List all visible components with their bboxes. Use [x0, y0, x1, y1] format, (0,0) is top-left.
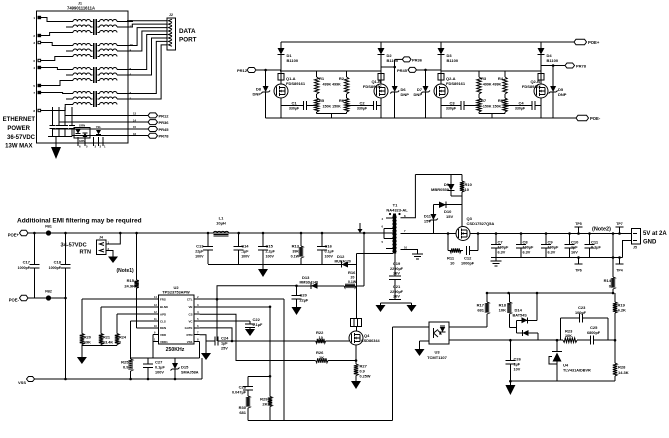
svg-text:6: 6 [381, 225, 383, 229]
svg-text:TCMT1107: TCMT1107 [427, 355, 448, 360]
svg-text:B1100: B1100 [387, 58, 399, 63]
svg-text:DNP: DNP [414, 92, 423, 97]
svg-text:10µH: 10µH [216, 221, 226, 226]
svg-text:C8: C8 [523, 240, 529, 245]
svg-text:14: 14 [133, 118, 137, 122]
svg-text:B1100: B1100 [287, 58, 299, 63]
svg-text:R20: R20 [84, 336, 91, 340]
svg-text:TPS23753APW: TPS23753APW [162, 290, 190, 295]
svg-text:1000pF: 1000pF [49, 266, 62, 270]
svg-text:1000pF: 1000pF [461, 262, 475, 266]
svg-text:CSD17527Q5A: CSD17527Q5A [467, 221, 495, 226]
svg-text:13: 13 [133, 112, 137, 116]
svg-text:16: 16 [133, 132, 137, 136]
svg-text:10K: 10K [565, 334, 572, 338]
svg-text:CSD86344: CSD86344 [361, 339, 380, 343]
svg-text:C21: C21 [393, 284, 401, 289]
svg-text:POWER: POWER [7, 126, 30, 132]
svg-text:3: 3 [33, 41, 35, 45]
svg-text:C27: C27 [155, 360, 163, 365]
svg-text:10V: 10V [514, 368, 521, 372]
svg-text:TP7: TP7 [616, 222, 622, 226]
svg-text:13W MAX: 13W MAX [5, 144, 32, 150]
svg-text:C19: C19 [393, 261, 401, 266]
svg-text:J5: J5 [633, 246, 637, 250]
svg-text:R5: R5 [319, 98, 325, 103]
svg-text:20: 20 [351, 276, 355, 280]
svg-text:6: 6 [79, 145, 81, 149]
svg-text:D15: D15 [181, 365, 189, 370]
svg-text:DATA: DATA [179, 28, 196, 35]
svg-text:CS: CS [188, 312, 192, 316]
svg-text:FDS89161: FDS89161 [446, 81, 466, 86]
svg-text:100V: 100V [155, 371, 164, 375]
svg-text:R7: R7 [481, 98, 487, 103]
svg-text:499K 499K: 499K 499K [483, 83, 502, 87]
svg-text:R4: R4 [498, 76, 504, 81]
svg-text:DNP: DNP [253, 92, 262, 97]
svg-text:FDS89161: FDS89161 [522, 84, 542, 89]
svg-text:R24: R24 [119, 336, 127, 340]
svg-text:R3: R3 [481, 76, 487, 81]
svg-text:36-57VDC: 36-57VDC [7, 135, 36, 141]
svg-text:POE+: POE+ [8, 232, 20, 237]
svg-text:CLS: CLS [160, 319, 166, 323]
svg-text:C3: C3 [449, 101, 455, 106]
svg-text:10: 10 [404, 246, 408, 250]
svg-text:VSS: VSS [187, 340, 193, 344]
svg-text:(Note1): (Note1) [117, 268, 135, 274]
svg-text:C2: C2 [359, 101, 365, 106]
svg-text:250KHz: 250KHz [166, 347, 185, 353]
svg-text:U4: U4 [563, 363, 569, 368]
svg-text:2K: 2K [262, 402, 267, 407]
svg-text:4: 4 [33, 66, 35, 70]
svg-text:PR12: PR12 [237, 68, 248, 73]
svg-text:C9: C9 [548, 240, 554, 245]
svg-text:4.2K: 4.2K [618, 308, 627, 313]
svg-text:D13: D13 [302, 275, 310, 280]
svg-text:14.3K: 14.3K [618, 370, 629, 375]
svg-text:1µF: 1µF [571, 246, 578, 250]
svg-text:POE+: POE+ [588, 40, 600, 45]
svg-text:100pF: 100pF [575, 311, 587, 315]
svg-text:J2: J2 [169, 13, 173, 17]
svg-text:FB1: FB1 [45, 225, 52, 229]
svg-text:0.1µF: 0.1µF [325, 250, 335, 254]
svg-text:0.25W: 0.25W [360, 375, 371, 379]
svg-text:26V: 26V [393, 295, 400, 299]
svg-text:R14: R14 [604, 278, 612, 283]
svg-text:C7: C7 [498, 240, 504, 245]
svg-text:4: 4 [381, 217, 383, 221]
svg-text:0.1W: 0.1W [291, 255, 300, 259]
svg-text:TP4: TP4 [616, 269, 622, 273]
svg-text:5: 5 [381, 240, 383, 244]
svg-text:B1100: B1100 [547, 58, 559, 63]
svg-text:C16: C16 [325, 244, 333, 249]
svg-text:Q4: Q4 [364, 333, 370, 338]
svg-text:PR36: PR36 [159, 120, 170, 125]
svg-text:DEN: DEN [160, 326, 166, 330]
svg-text:RTN: RTN [80, 250, 92, 256]
svg-text:VDD1: VDD1 [160, 340, 168, 344]
svg-text:PR36: PR36 [412, 57, 423, 62]
svg-text:330µF: 330µF [357, 107, 368, 111]
svg-text:100V: 100V [195, 255, 204, 259]
svg-text:C20: C20 [300, 293, 308, 298]
svg-text:R8: R8 [498, 98, 504, 103]
svg-text:2.2µF: 2.2µF [266, 250, 276, 254]
svg-text:2200µF: 2200µF [390, 290, 404, 294]
svg-text:GATE: GATE [185, 326, 193, 330]
svg-text:C22: C22 [253, 317, 261, 322]
svg-text:10: 10 [450, 261, 455, 266]
svg-text:R6: R6 [339, 98, 345, 103]
svg-text:6.3V: 6.3V [548, 251, 556, 255]
svg-text:6800pF: 6800pF [587, 331, 601, 335]
svg-text:26V: 26V [393, 272, 400, 276]
svg-text:MURA120: MURA120 [335, 260, 351, 264]
svg-text:C14: C14 [241, 244, 249, 249]
svg-text:RTN: RTN [187, 333, 193, 337]
svg-text:C11: C11 [591, 240, 599, 245]
svg-text:TP5: TP5 [575, 222, 581, 226]
svg-text:100V: 100V [325, 255, 334, 259]
svg-text:PR45: PR45 [159, 127, 170, 132]
svg-text:SMAJ58A: SMAJ58A [181, 371, 199, 375]
svg-text:FDS89161: FDS89161 [286, 81, 306, 86]
svg-text:0.1µF: 0.1µF [253, 323, 263, 327]
svg-text:330µF: 330µF [515, 107, 526, 111]
svg-text:PR45: PR45 [397, 68, 408, 73]
svg-text:TP6: TP6 [575, 269, 581, 273]
svg-text:C24: C24 [221, 336, 229, 341]
svg-text:25V: 25V [221, 347, 228, 351]
svg-text:BLNK: BLNK [160, 305, 169, 309]
svg-text:150K 150K: 150K 150K [483, 105, 502, 109]
svg-text:C12: C12 [464, 256, 472, 261]
svg-text:GRN: GRN [79, 124, 85, 128]
svg-text:5V at 2A: 5V at 2A [643, 231, 667, 237]
svg-text:YEL: YEL [96, 125, 102, 129]
svg-text:MBR0530: MBR0530 [431, 187, 450, 192]
svg-text:3: 3 [95, 145, 97, 149]
svg-text:C25: C25 [590, 325, 598, 330]
svg-text:U3: U3 [434, 350, 440, 355]
svg-text:1K: 1K [319, 355, 324, 360]
svg-text:POE-: POE- [590, 116, 601, 121]
svg-text:6.3V: 6.3V [498, 251, 506, 255]
svg-text:VB: VB [188, 305, 192, 309]
svg-text:69K: 69K [84, 341, 91, 345]
svg-text:3: 3 [100, 145, 102, 149]
svg-text:PR78: PR78 [576, 64, 587, 69]
svg-text:150K 150K: 150K 150K [323, 105, 342, 109]
svg-text:TLV431AIDBVR: TLV431AIDBVR [563, 369, 591, 373]
svg-text:1: 1 [104, 145, 106, 149]
svg-text:0.1µF: 0.1µF [155, 366, 165, 370]
svg-text:ETHERNET: ETHERNET [3, 117, 36, 123]
svg-text:VC: VC [188, 319, 193, 323]
svg-text:APD: APD [160, 312, 166, 316]
svg-text:0.9: 0.9 [123, 365, 129, 370]
svg-text:74990111611A: 74990111611A [67, 6, 95, 11]
svg-text:0: 0 [119, 341, 121, 345]
svg-text:DNP: DNP [558, 92, 567, 97]
svg-text:C17: C17 [23, 260, 31, 265]
svg-text:B1100: B1100 [447, 58, 459, 63]
svg-text:R16: R16 [348, 270, 356, 275]
svg-text:15V: 15V [424, 219, 431, 224]
svg-text:1: 1 [33, 16, 35, 20]
svg-text:C28: C28 [239, 385, 247, 390]
svg-text:.1µF: .1µF [241, 250, 249, 254]
svg-text:Additioinal EMI filtering may: Additioinal EMI filtering may be require… [17, 218, 142, 225]
svg-text:63.4K: 63.4K [103, 341, 113, 345]
svg-text:R21: R21 [103, 336, 110, 340]
svg-text:FDS89161: FDS89161 [363, 84, 383, 89]
svg-text:C23: C23 [578, 305, 586, 310]
svg-text:VDD: VDD [160, 333, 166, 337]
svg-text:MMSD4148: MMSD4148 [300, 281, 319, 285]
svg-text:100V: 100V [241, 255, 250, 259]
svg-text:34-57VDC: 34-57VDC [61, 243, 87, 249]
svg-text:PR78: PR78 [159, 134, 170, 139]
svg-text:PR12: PR12 [159, 113, 170, 118]
svg-text:C18: C18 [54, 260, 62, 265]
svg-text:GND: GND [643, 240, 657, 246]
svg-text:C10: C10 [571, 240, 579, 245]
svg-text:10K: 10K [499, 308, 506, 313]
svg-text:16V: 16V [571, 251, 578, 255]
svg-text:POE-: POE- [9, 297, 20, 302]
svg-text:1000pF: 1000pF [18, 266, 31, 270]
svg-text:R1: R1 [319, 76, 325, 81]
svg-text:5: 5 [33, 84, 35, 88]
svg-text:100µF: 100µF [548, 246, 560, 250]
svg-text:15V: 15V [446, 214, 453, 219]
svg-text:R28: R28 [618, 365, 626, 370]
svg-text:R23: R23 [565, 329, 573, 334]
svg-text:6.3V: 6.3V [523, 251, 531, 255]
svg-text:FB2: FB2 [45, 290, 52, 294]
svg-text:R15: R15 [127, 278, 135, 283]
svg-text:1µF: 1µF [221, 342, 228, 346]
svg-text:681: 681 [239, 410, 246, 415]
svg-text:5: 5 [86, 145, 88, 149]
svg-text:R13: R13 [292, 244, 300, 249]
svg-text:C15: C15 [266, 244, 274, 249]
svg-text:C26: C26 [514, 357, 522, 362]
svg-text:15: 15 [133, 125, 137, 129]
svg-text:(Note2): (Note2) [592, 227, 611, 233]
svg-text:VSS: VSS [18, 380, 26, 385]
svg-text:BAT54S: BAT54S [513, 314, 528, 318]
svg-text:0.9: 0.9 [360, 370, 365, 374]
svg-text:CTL: CTL [187, 297, 193, 301]
svg-text:499K 499K: 499K 499K [323, 83, 342, 87]
svg-text:681: 681 [477, 308, 484, 313]
svg-text:10: 10 [465, 187, 470, 192]
svg-text:7: 7 [404, 229, 406, 233]
svg-text:FRS: FRS [160, 297, 166, 301]
svg-text:100V: 100V [266, 255, 275, 259]
svg-text:24.9K: 24.9K [124, 284, 135, 289]
svg-text:GRN: GRN [79, 139, 85, 143]
svg-text:10: 10 [319, 335, 324, 340]
svg-text:C4: C4 [518, 101, 524, 106]
svg-text:PORT: PORT [179, 37, 197, 44]
svg-text:R27: R27 [360, 364, 368, 369]
svg-text:C1: C1 [291, 101, 297, 106]
svg-text:100µF: 100µF [523, 246, 535, 250]
svg-text:330µF: 330µF [289, 107, 300, 111]
svg-text:0: 0 [609, 284, 612, 289]
svg-text:2200µF: 2200µF [390, 267, 404, 271]
svg-text:2: 2 [33, 34, 35, 38]
svg-text:22µF: 22µF [195, 250, 204, 254]
svg-text:6: 6 [33, 59, 35, 63]
svg-text:330µF: 330µF [446, 107, 457, 111]
svg-text:0.047µF: 0.047µF [232, 391, 247, 395]
svg-text:1µF: 1µF [514, 363, 521, 367]
svg-text:8: 8 [33, 109, 35, 113]
svg-text:R2: R2 [339, 76, 345, 81]
svg-text:7: 7 [33, 91, 35, 95]
svg-text:22µF: 22µF [300, 299, 309, 303]
svg-text:100µF: 100µF [498, 246, 510, 250]
svg-text:J4: J4 [99, 236, 103, 240]
svg-text:0.1µF: 0.1µF [591, 246, 601, 250]
svg-text:D12: D12 [337, 254, 345, 259]
svg-text:NA4323-AL: NA4323-AL [386, 208, 408, 213]
svg-text:DNP: DNP [401, 92, 410, 97]
svg-text:D14: D14 [515, 308, 523, 313]
svg-text:C13: C13 [196, 244, 204, 249]
svg-text:39K: 39K [292, 250, 299, 254]
svg-text:0.1W: 0.1W [348, 280, 357, 284]
